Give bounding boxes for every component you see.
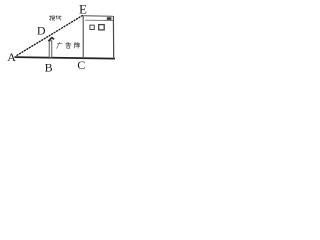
svg-text:E: E <box>79 2 87 17</box>
svg-text:C: C <box>77 58 85 72</box>
svg-text:A: A <box>7 50 16 64</box>
svg-text:D: D <box>37 24 46 38</box>
svg-text:B: B <box>45 60 53 74</box>
